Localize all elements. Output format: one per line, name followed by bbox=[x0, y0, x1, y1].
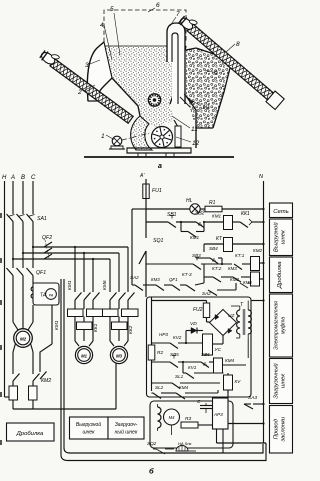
svg-text:6: 6 bbox=[156, 2, 160, 9]
svg-text:М1: М1 bbox=[81, 353, 87, 358]
neutral wire H bbox=[4, 181, 6, 397]
svg-text:VD: VD bbox=[190, 321, 197, 327]
ground line bbox=[84, 156, 234, 158]
resistor R1 bbox=[200, 208, 205, 210]
branch feeders to augers bbox=[32, 246, 34, 248]
svg-text:1: 1 bbox=[101, 133, 105, 140]
phase wire C bbox=[32, 181, 34, 214]
svg-text:б: б bbox=[149, 467, 154, 476]
switch SA1 bbox=[7, 214, 14, 222]
outer double line bbox=[61, 279, 266, 461]
svg-text:КV1: КV1 bbox=[188, 365, 197, 370]
inner feed bus bbox=[151, 297, 153, 345]
wire A cont bbox=[12, 222, 14, 269]
rectifier bridge UZ bbox=[210, 310, 237, 336]
svg-text:SL2: SL2 bbox=[155, 385, 164, 390]
svg-text:а: а bbox=[158, 163, 162, 170]
thermal elements KK2 bbox=[103, 309, 119, 317]
svg-text:Электромагнитная: Электромагнитная bbox=[274, 301, 280, 350]
svg-text:КМ3: КМ3 bbox=[151, 277, 160, 282]
svg-text:КТ: КТ bbox=[216, 236, 223, 242]
right edge of crusher power box bbox=[115, 350, 117, 409]
svg-text:Дробилка: Дробилка bbox=[16, 431, 44, 437]
svg-text:шнек: шнек bbox=[281, 374, 287, 388]
thermal elements KK1 bbox=[68, 309, 84, 317]
svg-text:SQ1: SQ1 bbox=[153, 238, 163, 244]
svg-text:7: 7 bbox=[176, 11, 180, 18]
right screw conveyor (item 8) bbox=[186, 22, 285, 109]
M2 lower leads bbox=[13, 344, 16, 353]
svg-text:Т: Т bbox=[240, 302, 244, 308]
right conveyor drive motor bbox=[178, 12, 199, 33]
motor M3 bbox=[110, 341, 114, 346]
svg-text:R3: R3 bbox=[185, 416, 191, 422]
label box crusher bbox=[7, 423, 55, 441]
lamp HL bbox=[146, 208, 190, 210]
phase wire B bbox=[22, 181, 24, 214]
phase wire A bbox=[12, 181, 14, 214]
svg-text:SA1: SA1 bbox=[37, 216, 47, 222]
svg-text:SB2: SB2 bbox=[195, 211, 205, 217]
svg-text:10: 10 bbox=[202, 104, 210, 111]
svg-text:КК2: КК2 bbox=[128, 325, 134, 334]
left screw conveyor (items 2,3) bbox=[50, 59, 133, 123]
svg-text:КМ6: КМ6 bbox=[102, 280, 108, 290]
big cabinet outline left bbox=[64, 279, 263, 453]
svg-text:SB5: SB5 bbox=[170, 352, 179, 357]
svg-text:КV2: КV2 bbox=[173, 335, 182, 340]
overflow tube (item 7) inverted U bbox=[167, 23, 185, 104]
svg-text:шнек: шнек bbox=[82, 430, 95, 436]
gate drive label bbox=[270, 406, 293, 454]
svg-text:FU2: FU2 bbox=[193, 307, 203, 313]
auger M3 branch wires bbox=[109, 259, 111, 292]
svg-text:QF2: QF2 bbox=[42, 235, 52, 241]
svg-text:12: 12 bbox=[192, 140, 200, 147]
svg-text:SA2: SA2 bbox=[130, 275, 139, 280]
gate drive box bbox=[150, 401, 233, 448]
wire C cont bbox=[32, 222, 34, 269]
automatic regulator AP3 box bbox=[213, 398, 229, 429]
left intake duct (item 4) J-shape bbox=[87, 42, 112, 101]
crusher box bbox=[270, 257, 293, 293]
svg-text:КТ:1: КТ:1 bbox=[235, 253, 245, 258]
svg-text:КМ1: КМ1 bbox=[212, 214, 222, 219]
svg-text:4: 4 bbox=[100, 22, 104, 29]
net box bbox=[270, 203, 293, 218]
limit switch SQ1 bbox=[139, 251, 146, 264]
rotor side plate bbox=[175, 126, 181, 147]
left conveyor drive motor bbox=[39, 47, 61, 69]
svg-text:КМ2: КМ2 bbox=[41, 378, 51, 384]
svg-text:Загрузочный: Загрузочный bbox=[273, 363, 280, 399]
step to left bus bbox=[132, 208, 146, 210]
auger M1 branch wires bbox=[74, 246, 76, 248]
hopper walls bbox=[101, 46, 140, 116]
svg-text:А': А' bbox=[139, 173, 145, 179]
svg-text:КМ2: КМ2 bbox=[253, 248, 263, 253]
svg-text:Дробилка: Дробилка bbox=[277, 261, 283, 289]
svg-text:Привод: Привод bbox=[274, 418, 280, 439]
svg-text:HL: HL bbox=[186, 198, 193, 204]
KM1 holding contact bbox=[180, 222, 182, 232]
AP3 outgoing wires bbox=[228, 423, 264, 425]
timer KT coil row bbox=[204, 243, 224, 245]
svg-text:КМ3: КМ3 bbox=[228, 266, 237, 271]
svg-text:УС: УС bbox=[215, 347, 222, 353]
hopper body (item 5) with grain speckle bbox=[101, 46, 186, 128]
feed roller (item 11) sprocket bbox=[148, 94, 160, 106]
bottom rail of crusher section bbox=[13, 408, 116, 410]
svg-text:КК1: КК1 bbox=[93, 323, 99, 332]
fuse FU1 bbox=[143, 184, 149, 199]
discharge chute (item 10) bbox=[180, 97, 190, 107]
svg-text:КМ1: КМ1 bbox=[54, 320, 60, 330]
svg-text:5: 5 bbox=[110, 6, 114, 13]
svg-text:КТ:2: КТ:2 bbox=[212, 266, 222, 271]
svg-text:2: 2 bbox=[77, 89, 82, 96]
svg-text:АР3: АР3 bbox=[213, 412, 223, 417]
svg-text:SQ2: SQ2 bbox=[147, 441, 157, 446]
discharge auger box bbox=[270, 219, 293, 256]
belt dash-dot line bbox=[122, 133, 150, 140]
wire B cont bbox=[22, 222, 24, 269]
svg-text:М2: М2 bbox=[20, 336, 27, 341]
rotor (item 12) circle with spokes bbox=[152, 127, 173, 148]
svg-text:SL1: SL1 bbox=[175, 374, 184, 379]
svg-text:SB6: SB6 bbox=[201, 352, 210, 357]
svg-text:КV: КV bbox=[235, 379, 242, 384]
KM4 coil bbox=[214, 358, 223, 373]
KV coil bbox=[224, 375, 233, 390]
svg-text:М3: М3 bbox=[116, 353, 122, 358]
svg-text:С: С bbox=[31, 175, 36, 181]
svg-text:В: В bbox=[21, 175, 25, 181]
svg-text:КТ-3: КТ-3 bbox=[182, 272, 192, 277]
volute casing left of rotor bbox=[131, 116, 152, 150]
svg-text:QF1: QF1 bbox=[169, 277, 178, 282]
svg-text:QF1: QF1 bbox=[36, 270, 46, 276]
auger label boxes bbox=[70, 417, 109, 439]
svg-text:R1: R1 bbox=[209, 200, 216, 206]
svg-text:Выгрузной: Выгрузной bbox=[273, 222, 280, 252]
current transformer TA with ammeter PA bbox=[33, 283, 59, 305]
right grain chamber (item 9) bbox=[186, 48, 232, 128]
svg-text:Выгрузной: Выгрузной bbox=[76, 421, 101, 428]
svg-text:R2: R2 bbox=[157, 350, 163, 356]
svg-text:КМ1: КМ1 bbox=[67, 280, 73, 290]
svg-text:КМ4: КМ4 bbox=[179, 385, 189, 390]
svg-text:С: С bbox=[197, 399, 201, 405]
start-stop row SB1 SB2 to KM1 coil bbox=[146, 221, 168, 223]
wire from TA down, KM1 label bbox=[51, 305, 53, 344]
svg-text:заслонки: заслонки bbox=[281, 416, 287, 443]
clutch box label bbox=[270, 294, 293, 357]
resistor R2 bbox=[148, 345, 155, 360]
svg-text:ный шнек: ный шнек bbox=[115, 429, 138, 436]
KM1 coil bbox=[224, 216, 233, 230]
svg-text:SA3: SA3 bbox=[248, 395, 257, 401]
base plate bbox=[127, 148, 191, 153]
crusher housing walls bbox=[186, 96, 196, 148]
svg-text:9: 9 bbox=[214, 70, 218, 77]
breaker QF1 bbox=[7, 268, 14, 276]
svg-text:8: 8 bbox=[236, 41, 240, 48]
dashed hood (item 6) bbox=[104, 10, 186, 42]
svg-text:3: 3 bbox=[85, 62, 89, 69]
clutch section box bbox=[147, 297, 252, 397]
motor M2 crusher bbox=[14, 329, 33, 348]
svg-text:КК1: КК1 bbox=[241, 211, 250, 217]
svg-text:М4: М4 bbox=[169, 415, 175, 420]
motor pulley (item 1) bbox=[112, 136, 122, 146]
svg-text:РА: РА bbox=[49, 293, 54, 297]
svg-text:UZ: UZ bbox=[228, 313, 235, 319]
svg-text:А: А bbox=[10, 175, 15, 181]
wires down to M2 bbox=[12, 276, 14, 323]
svg-text:НА Sнк: НА Sнк bbox=[178, 441, 193, 446]
svg-text:11: 11 bbox=[191, 126, 198, 133]
svg-text:КМ4: КМ4 bbox=[225, 358, 235, 363]
wire bridge bottom to YC bbox=[222, 336, 224, 345]
svg-text:Загрузоч-: Загрузоч- bbox=[115, 422, 138, 428]
contacts KM2 bbox=[13, 374, 20, 382]
clutch box to N wires bbox=[251, 300, 264, 302]
svg-text:КМ3: КМ3 bbox=[243, 280, 252, 285]
svg-text:шнек: шнек bbox=[281, 230, 287, 244]
svg-text:НР3: НР3 bbox=[159, 332, 168, 337]
svg-text:FU1: FU1 bbox=[152, 188, 162, 194]
svg-text:N: N bbox=[259, 174, 264, 180]
svg-text:Н: Н bbox=[2, 175, 7, 181]
fuse FU2 bbox=[203, 303, 209, 318]
resistor blocks under KM2 bbox=[12, 381, 14, 386]
left margin scan marks bbox=[0, 213, 2, 218]
svg-text:КМ1: КМ1 bbox=[190, 235, 200, 240]
loading auger box bbox=[270, 359, 293, 404]
KM3 coil bbox=[251, 272, 260, 286]
motor M4 with winding bbox=[158, 407, 162, 414]
svg-text:Сеть: Сеть bbox=[273, 209, 288, 215]
svg-text:SA2: SA2 bbox=[202, 291, 211, 296]
clutch YC rect bbox=[203, 334, 213, 355]
svg-text:муфта: муфта bbox=[281, 317, 287, 334]
svg-text:SB4: SB4 bbox=[209, 246, 218, 251]
motor M1 bbox=[75, 341, 79, 346]
